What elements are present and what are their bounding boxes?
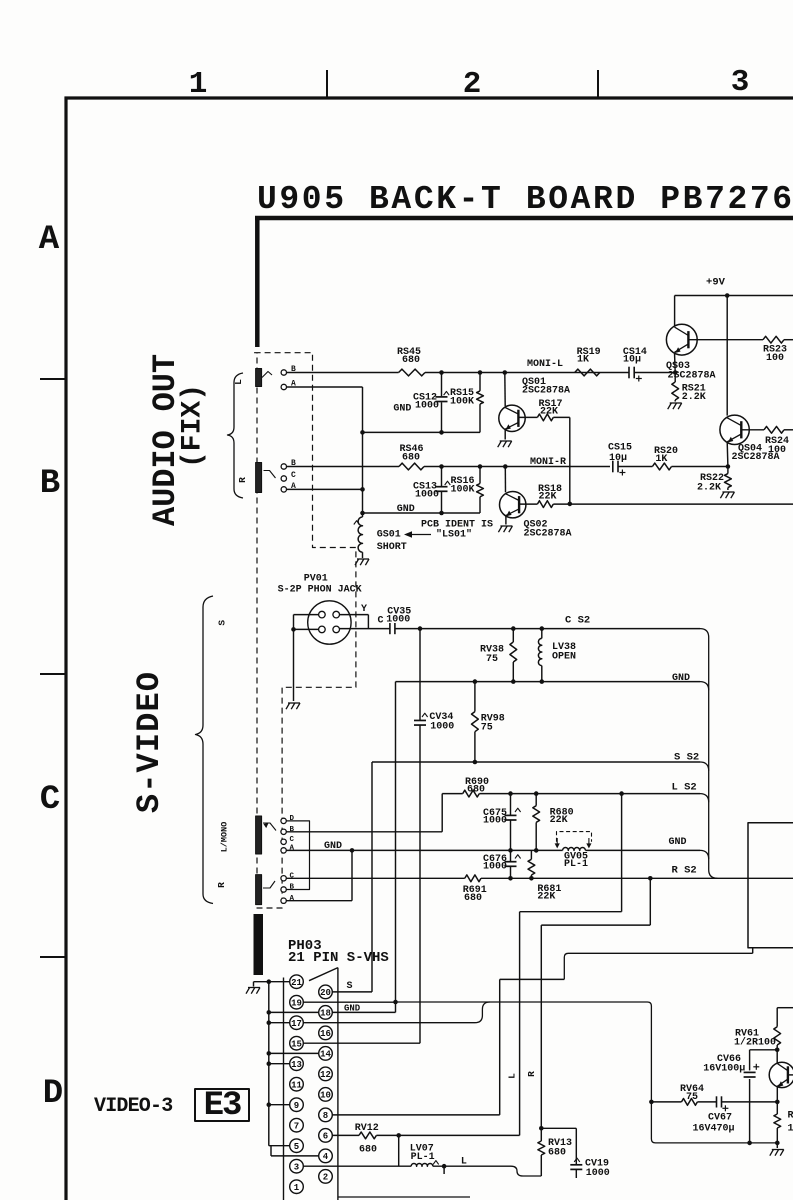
node rail CV66	[747, 1141, 752, 1146]
wire R S2 line	[286, 877, 465, 879]
svg-text:10: 10	[320, 1091, 331, 1101]
wire RV12 to L route	[376, 1134, 519, 1136]
svg-text:L S2: L S2	[672, 782, 697, 794]
pin 6 of PH03	[319, 1129, 333, 1143]
wire L jack B to RS45	[287, 372, 399, 374]
wire CS14 to QS03 emitter node	[634, 372, 675, 374]
svg-text:1000: 1000	[415, 401, 439, 412]
wire S S2 line	[372, 761, 700, 763]
pin PV01 top-right	[333, 611, 340, 618]
capacitor C676 1000	[510, 850, 512, 861]
resistor RS18 22K	[537, 501, 553, 508]
node QS01 collector	[503, 370, 508, 375]
wire R route down	[649, 878, 651, 925]
pin 2 of PH03	[319, 1170, 333, 1184]
wire QS03 emitter down	[674, 352, 677, 372]
wire pin15 to Y line	[303, 1042, 420, 1044]
resistor RS19 1K	[575, 369, 600, 376]
wire L/MONO B to L S2	[286, 831, 442, 833]
svg-text:19: 19	[291, 998, 302, 1008]
wire RS23 to right edge	[784, 339, 793, 341]
ground video amp	[770, 1150, 774, 1156]
transistor QS02 2SC2878A	[504, 467, 506, 493]
svg-text:MONI-R: MONI-R	[530, 457, 566, 468]
audio jack L (phono)	[256, 369, 262, 387]
svg-text:75: 75	[481, 723, 493, 734]
node RS16 top	[478, 464, 483, 469]
wire QS04 base to RS24	[741, 429, 764, 431]
svg-text:75: 75	[486, 654, 498, 665]
wire RS18 base bus to right edge	[553, 503, 793, 505]
pin 20 of PH03	[319, 985, 333, 999]
node QS03 emitter junction	[673, 370, 678, 375]
wire RS24 to right edge	[784, 429, 793, 431]
contact C of R svideo jack	[281, 876, 286, 881]
svg-text:PL-1: PL-1	[411, 1152, 435, 1163]
svg-text:3: 3	[294, 1162, 299, 1172]
capacitor CV67 16V470u	[716, 1096, 718, 1107]
ground PV01	[286, 703, 290, 709]
svg-text:GS01: GS01	[377, 530, 401, 541]
node R681 bottom	[529, 876, 534, 881]
wire R jack A to gnd bus	[287, 488, 363, 490]
wire GND route right	[396, 1002, 778, 1143]
svg-text:22K: 22K	[537, 892, 555, 903]
pin 10 of PH03	[319, 1088, 333, 1102]
svg-text:1000: 1000	[386, 615, 410, 626]
svg-text:L: L	[507, 1073, 518, 1079]
wire CV35 to bus C S2	[395, 628, 700, 630]
contact B of R jack	[281, 464, 286, 469]
reference box E3	[195, 1089, 249, 1121]
svg-text:C S2: C S2	[565, 615, 590, 627]
capacitor CV19 1000	[570, 1164, 582, 1166]
svg-text:75: 75	[686, 1092, 698, 1103]
pin 4 of PH03	[319, 1149, 333, 1163]
node RS15 top	[478, 370, 483, 375]
node LV07 out	[442, 1164, 447, 1169]
svg-text:100K: 100K	[450, 397, 474, 408]
svg-text:16V470μ: 16V470μ	[693, 1124, 735, 1135]
svg-text:CV67: CV67	[708, 1113, 732, 1124]
capacitor CV34 1000 on Y line	[419, 629, 421, 721]
node LV38 bottom	[540, 679, 545, 684]
wire S route down to pin20	[371, 762, 373, 992]
wire QS04 emitter down	[726, 442, 729, 467]
svg-text:2: 2	[323, 1173, 328, 1183]
wire pin17 gnd jog	[303, 1002, 490, 1023]
resistor RV12 680	[359, 1132, 376, 1139]
svg-text:C: C	[40, 781, 60, 819]
svg-text:RV12: RV12	[355, 1123, 379, 1134]
wire +9V rail	[675, 295, 793, 297]
svg-text:680: 680	[402, 453, 420, 464]
svg-text:"LS01": "LS01"	[436, 528, 472, 540]
svg-text:5: 5	[294, 1142, 299, 1152]
svg-text:R S2: R S2	[672, 865, 697, 877]
svg-text:1000: 1000	[586, 1168, 610, 1179]
wire GND2 curve into bus	[700, 850, 709, 859]
node CS12 bottom	[439, 430, 444, 435]
svg-text:PL-1: PL-1	[564, 859, 588, 870]
node +9V QS04 branch	[725, 293, 730, 298]
svg-text:C: C	[378, 616, 384, 627]
inductor LV38 OPEN	[541, 629, 543, 639]
brace s-video	[196, 596, 214, 904]
svg-text:680: 680	[359, 1145, 377, 1156]
wire RV61 node to CV66	[750, 1049, 778, 1051]
node RV12 junction	[396, 1133, 401, 1138]
node L route branch	[619, 791, 624, 796]
node pin13 bus	[267, 1061, 272, 1066]
svg-text:13: 13	[291, 1060, 302, 1070]
wire pin9 stub	[269, 1104, 290, 1106]
svg-text:1/: 1/	[788, 1123, 793, 1135]
contact A of L/MONO jack	[281, 848, 286, 853]
pin 18 of PH03	[319, 1006, 333, 1020]
node R-A junction	[360, 487, 365, 492]
wire pin13 stub	[269, 1063, 290, 1065]
svg-text:680: 680	[464, 893, 482, 904]
wire RV64 to CV67	[697, 1101, 716, 1103]
node QS04 emitter junction	[726, 464, 731, 469]
wire GND2 line jacks to bus	[286, 849, 562, 851]
svg-text:C: C	[290, 872, 295, 880]
svg-text:680: 680	[548, 1148, 566, 1159]
wire Y/C line to CV35	[340, 628, 390, 630]
resistor RS23 100	[763, 336, 784, 343]
node pin14 bus	[267, 1051, 272, 1056]
resistor R680 22K	[535, 794, 537, 806]
svg-text:2: 2	[463, 67, 482, 102]
node pin18 bus	[267, 1010, 272, 1015]
svg-text:22K: 22K	[550, 815, 568, 826]
wire pin20 S	[332, 991, 372, 993]
ground RS21	[668, 403, 672, 409]
pin 9 of PH03	[290, 1098, 304, 1112]
resistor R690 680	[463, 790, 480, 797]
wire R jack B to RS46	[287, 466, 400, 468]
wire L jog down to RV13 bottom	[511, 1166, 541, 1176]
node CS13 top	[439, 464, 444, 469]
svg-text:1000: 1000	[430, 722, 454, 733]
svg-text:R: R	[526, 1071, 537, 1077]
pin 14 of PH03	[319, 1047, 333, 1061]
svg-text:GND: GND	[393, 404, 411, 415]
resistor RS46 680	[399, 463, 424, 470]
svg-text:A: A	[290, 895, 295, 903]
wire A contacts ground link	[351, 850, 353, 900]
wire pin5 stub	[269, 1145, 290, 1147]
transistor video amp Q	[776, 1050, 778, 1064]
resistor R691 680	[465, 875, 481, 882]
wire RV61 feed from right	[777, 1007, 793, 1009]
wire QS04 collector from rail	[726, 296, 728, 416]
wire QS03 collector	[674, 296, 676, 327]
svg-text:S S2: S S2	[674, 752, 699, 764]
resistor R681 22K	[530, 850, 532, 859]
wire RV13 node to CV19	[541, 1127, 576, 1129]
svg-text:15: 15	[291, 1039, 302, 1049]
node QS02 collector	[503, 464, 508, 469]
svg-text:3: 3	[731, 65, 750, 100]
resistor RV38 75	[512, 629, 514, 642]
wire RS20 to QS04 emitter node	[672, 466, 728, 468]
capacitor CS15 10u	[612, 461, 614, 473]
ground GS01	[355, 559, 359, 565]
node RV61 bottom	[775, 1048, 780, 1053]
ground RS22	[720, 492, 724, 498]
pin PV01 bottom-right	[333, 626, 340, 633]
node RV13 top	[539, 1126, 544, 1131]
svg-text:GND: GND	[397, 504, 415, 515]
node A-bus / L bottom wire	[360, 430, 365, 435]
svg-text:A: A	[39, 221, 60, 259]
wire RS45 to CS14	[425, 372, 629, 374]
resistor RS15 100K	[479, 373, 481, 391]
wire S S2 curve into bus	[700, 762, 709, 771]
contact A of L jack	[281, 384, 286, 389]
wire pin18 stub right GND	[332, 1011, 395, 1013]
svg-text:C: C	[291, 471, 296, 480]
contact A of R jack	[281, 487, 286, 492]
wire GND curve into bus	[700, 682, 709, 691]
pin 5 of PH03	[290, 1139, 304, 1153]
resistor RS17 22K	[537, 414, 553, 421]
svg-text:B: B	[290, 826, 295, 834]
svg-text:GND: GND	[669, 837, 687, 848]
svg-text:B: B	[40, 465, 60, 503]
svg-text:20: 20	[320, 988, 331, 998]
svg-text:+9V: +9V	[706, 277, 726, 289]
svg-text:S-VIDEO: S-VIDEO	[131, 671, 168, 813]
node pin9 bus	[267, 1102, 272, 1107]
wire L route down	[621, 794, 623, 912]
resistor RV62 1/2R100 partial	[776, 1102, 778, 1114]
svg-text:R: R	[216, 882, 227, 888]
svg-text:12: 12	[320, 1070, 331, 1080]
wire pin3 line	[303, 1165, 411, 1167]
transistor QS04 2SC2878A	[720, 415, 749, 444]
pin 16 of PH03	[319, 1026, 333, 1040]
contact C of L/MONO jack	[281, 839, 286, 844]
svg-text:1: 1	[189, 67, 208, 102]
transistor QS03 2SC2878A	[666, 324, 697, 355]
resistor RS22 2.2K	[727, 467, 729, 474]
node GND pins junction	[393, 1000, 398, 1005]
svg-text:11: 11	[291, 1080, 302, 1090]
audio jack R (phono)	[256, 463, 262, 493]
wire GND vertical to pins 19/18	[395, 682, 397, 1002]
svg-text:100: 100	[766, 353, 784, 364]
wire GND line svideo	[396, 681, 701, 683]
ruler tick left 1	[40, 378, 66, 380]
svg-text:2SC2878A: 2SC2878A	[522, 386, 570, 397]
svg-text:21: 21	[291, 978, 302, 988]
wire pin8 route from box	[752, 948, 754, 954]
svg-text:Y: Y	[361, 604, 367, 615]
svg-text:2SC2878A: 2SC2878A	[524, 529, 572, 540]
contact A of R svideo jack	[281, 898, 286, 903]
wire LV07 to jog	[433, 1165, 511, 1167]
svg-text:16: 16	[320, 1029, 331, 1039]
capacitor CV66 16V100u	[749, 1050, 751, 1071]
wire RS46 to CS15	[424, 466, 610, 468]
resistor RS45 680	[399, 369, 425, 376]
svg-text:B: B	[290, 884, 295, 892]
svg-text:RV: RV	[788, 1111, 793, 1122]
svg-text:7: 7	[294, 1121, 299, 1131]
capacitor CS14 10u	[628, 367, 630, 379]
inductor LV07 PL-1	[411, 1164, 433, 1167]
pin PV01 top-left	[319, 611, 326, 618]
wire CV67 to emitter node	[722, 1101, 778, 1103]
capacitor C675 1000	[510, 794, 512, 816]
svg-text:L: L	[233, 379, 244, 385]
svg-text:10μ: 10μ	[623, 355, 641, 366]
svideo jack R (phono)	[256, 875, 262, 905]
pin 8 of PH03	[319, 1108, 333, 1122]
svg-text:PV01: PV01	[304, 574, 328, 585]
ruler tick left 3	[40, 956, 66, 958]
svg-text:18: 18	[320, 1009, 331, 1019]
ruler tick top 1	[326, 70, 328, 98]
node CS12 top	[439, 370, 444, 375]
connector PV01 jack circle	[308, 601, 351, 644]
svg-text:GND: GND	[324, 841, 342, 852]
svg-text:17: 17	[291, 1019, 302, 1029]
pin 15 of PH03	[290, 1036, 304, 1050]
wire pin17 stub left	[269, 1022, 290, 1024]
pin 17 of PH03	[290, 1016, 304, 1030]
wire RV64 branch	[651, 1101, 681, 1103]
node RV98 bottom	[473, 760, 478, 765]
node GND2 A-junction	[350, 848, 355, 853]
page border frame top	[65, 96, 793, 99]
svg-text:1: 1	[294, 1183, 300, 1193]
svg-text:1/2R100: 1/2R100	[734, 1037, 776, 1049]
ruler tick left 2	[40, 673, 66, 675]
svg-text:D: D	[43, 1075, 63, 1113]
node rail emitter resistor	[775, 1141, 780, 1146]
capacitor CV35 1000	[389, 623, 391, 634]
ruler tick top 2	[597, 70, 599, 98]
svg-text:D: D	[290, 815, 295, 823]
wire gnd stub amp	[776, 1143, 778, 1148]
svg-text:U905 BACK-T BOARD PB7276: U905 BACK-T BOARD PB7276	[257, 181, 793, 218]
wire pin8 stub	[332, 1114, 499, 1116]
svg-text:2.2K: 2.2K	[697, 483, 721, 494]
svg-text:100K: 100K	[451, 485, 475, 496]
svg-text:SHORT: SHORT	[377, 542, 407, 553]
wire L jack A down to gnd bus	[287, 386, 363, 388]
svg-text:16V100μ: 16V100μ	[703, 1064, 745, 1075]
svg-text:22K: 22K	[540, 407, 558, 418]
svg-text:S-2P PHON JACK: S-2P PHON JACK	[278, 585, 362, 596]
page border frame left	[64, 97, 67, 1200]
svg-text:L: L	[461, 1157, 467, 1168]
contact B of L jack	[281, 370, 286, 375]
svg-text:MONI-L: MONI-L	[527, 359, 563, 370]
resistor RV98 75	[474, 682, 476, 712]
wire Q emitter down	[776, 1086, 778, 1102]
svg-text:1000: 1000	[483, 862, 507, 873]
wire PV01 left pins to ground	[294, 614, 319, 616]
wire L S2 curve into bus	[700, 794, 709, 803]
svg-text:GND: GND	[672, 673, 690, 684]
svg-text:10μ: 10μ	[609, 453, 627, 464]
svg-text:A: A	[290, 845, 295, 853]
svg-text:680: 680	[402, 355, 420, 366]
svg-text:6: 6	[323, 1132, 328, 1142]
dashed jack enclosure outline	[255, 353, 356, 908]
svg-text:21 PIN S-VHS: 21 PIN S-VHS	[288, 950, 389, 966]
svg-text:(FIX): (FIX)	[178, 384, 209, 468]
svg-text:1K: 1K	[577, 355, 589, 366]
node R680 top	[534, 791, 539, 796]
svg-text:GND: GND	[344, 1004, 361, 1014]
node RV64 branch on gnd route	[649, 1100, 654, 1105]
node base bus junction	[568, 502, 573, 507]
resistor RS20 1K	[618, 466, 652, 468]
inductor GV05 PL-1	[563, 848, 586, 851]
capacitor CS13 1000	[441, 467, 443, 487]
ground QS01	[498, 441, 502, 447]
wire L S2 line	[442, 793, 463, 795]
node R route branch	[648, 876, 653, 881]
wire pin6 to RV12	[332, 1134, 359, 1136]
svg-text:S: S	[347, 981, 353, 992]
wire bottom cut edge	[338, 1196, 471, 1198]
node CS13 bottom	[439, 511, 444, 516]
svg-text:L/MONO: L/MONO	[220, 822, 230, 853]
pin 13 of PH03	[290, 1057, 304, 1071]
wire C S2 curve into bus	[700, 629, 717, 879]
pin 3 of PH03	[290, 1159, 304, 1173]
svg-text:C: C	[290, 836, 295, 844]
node R gnd wire	[360, 511, 365, 516]
stub below LV07 node	[443, 1166, 445, 1174]
wire pin18 stub left	[269, 1011, 319, 1013]
contact C of R jack	[281, 476, 286, 481]
wire PV01 right pins to Y/C line	[340, 614, 369, 616]
contact B of L/MONO jack	[281, 829, 286, 834]
svg-text:R: R	[237, 477, 248, 483]
wire pin21 to ground	[254, 981, 290, 983]
wire pin19 stub	[303, 1001, 395, 1003]
wire QS03 base to RS23	[688, 339, 763, 341]
wire R channel bottom GND	[363, 512, 481, 514]
transistor QS01 2SC2878A	[504, 373, 506, 407]
svg-text:CS15: CS15	[608, 443, 632, 454]
capacitor CS12 1000	[441, 373, 443, 397]
wire gnd bus left of connector	[268, 982, 270, 1146]
wire RS17 to base bus	[553, 416, 570, 418]
resistor RV64 75	[682, 1099, 698, 1106]
pin 21 of PH03	[290, 975, 304, 989]
wire pin4 stub	[271, 1155, 319, 1157]
svg-text:VIDEO-3: VIDEO-3	[94, 1095, 172, 1118]
board outline thick top line	[255, 216, 793, 221]
arrow to GS01	[406, 534, 431, 536]
pin 12 of PH03	[319, 1067, 333, 1081]
svg-text:8: 8	[323, 1111, 328, 1121]
resistor RS21 2.2K	[674, 373, 676, 383]
svg-text:E3: E3	[204, 1087, 241, 1125]
resistor RV61 1/2R100	[776, 1008, 778, 1027]
contact D of L/MONO jack	[281, 818, 286, 823]
connector PH03 outline	[337, 968, 339, 1200]
